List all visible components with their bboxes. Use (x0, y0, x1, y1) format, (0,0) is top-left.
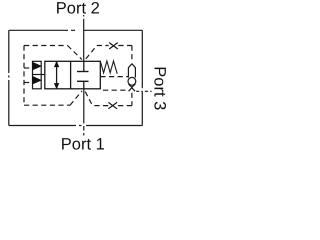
orifice X symbol top (109, 43, 118, 49)
svg-text:Port 2: Port 2 (56, 0, 100, 18)
enclosure boundary bottom edge (chain line) (9, 125, 143, 127)
pilot line from valve corner to check seat (dashed) (103, 89, 128, 91)
pilot line right vertical down to check valve (dashed) (131, 46, 133, 63)
pilot triangle top (hydraulic pilot) (33, 62, 41, 69)
pilot stub to top pilot triangle (dashed) (24, 67, 33, 69)
pilot line top-left horizontal (dashed) (24, 45, 68, 47)
check valve seat caret (129, 88, 135, 92)
pilot line bottom-left horizontal (dashed) (24, 104, 70, 106)
orifice X symbol bottom (108, 102, 117, 108)
enclosure boundary right edge (chain line) (141, 30, 143, 125)
pilot line diagonal to top port (dashed) (68, 46, 82, 60)
pilot line left vertical (dashed) (23, 46, 25, 106)
pilot line top-right horizontal (dashed) (97, 45, 132, 47)
pilot line diagonal to bottom port (dashed) (70, 91, 82, 105)
pilot line diagonal from top port to right (dashed) (86, 46, 97, 59)
pilot actuator box (33, 61, 45, 89)
pilot line diagonal from bottom port (dashed) (85, 92, 92, 106)
check valve CV1 body (seat and walls) (128, 64, 135, 87)
pilot triangle bottom (hydraulic pilot) (33, 77, 41, 84)
enclosure boundary top edge (chain line) (9, 29, 143, 31)
wire port 2 line (83, 15, 85, 61)
wire port 1 line (83, 89, 85, 136)
flow path double arrow in left position square (56, 66, 58, 85)
svg-text:Port 1: Port 1 (61, 135, 105, 153)
pilot line below check valve vertical (dashed) (131, 93, 133, 106)
wire port 3 line (dash-dot stub) (136, 90, 151, 92)
check valve ball (128, 77, 136, 85)
pilot line bottom-right horizontal (dashed) (93, 105, 132, 107)
blocked port T top in right position square (77, 61, 89, 71)
blocked port T bottom in right position square (77, 81, 89, 89)
valve V1 main body (2-position) (45, 61, 101, 89)
enclosure boundary left edge (chain line) (8, 30, 10, 125)
svg-text:Port 3: Port 3 (150, 66, 168, 110)
pilot stub to bottom pilot triangle (dashed) (24, 82, 33, 84)
pilot line under spring (dashed) (100, 76, 128, 78)
spring (return spring) (100, 61, 117, 74)
